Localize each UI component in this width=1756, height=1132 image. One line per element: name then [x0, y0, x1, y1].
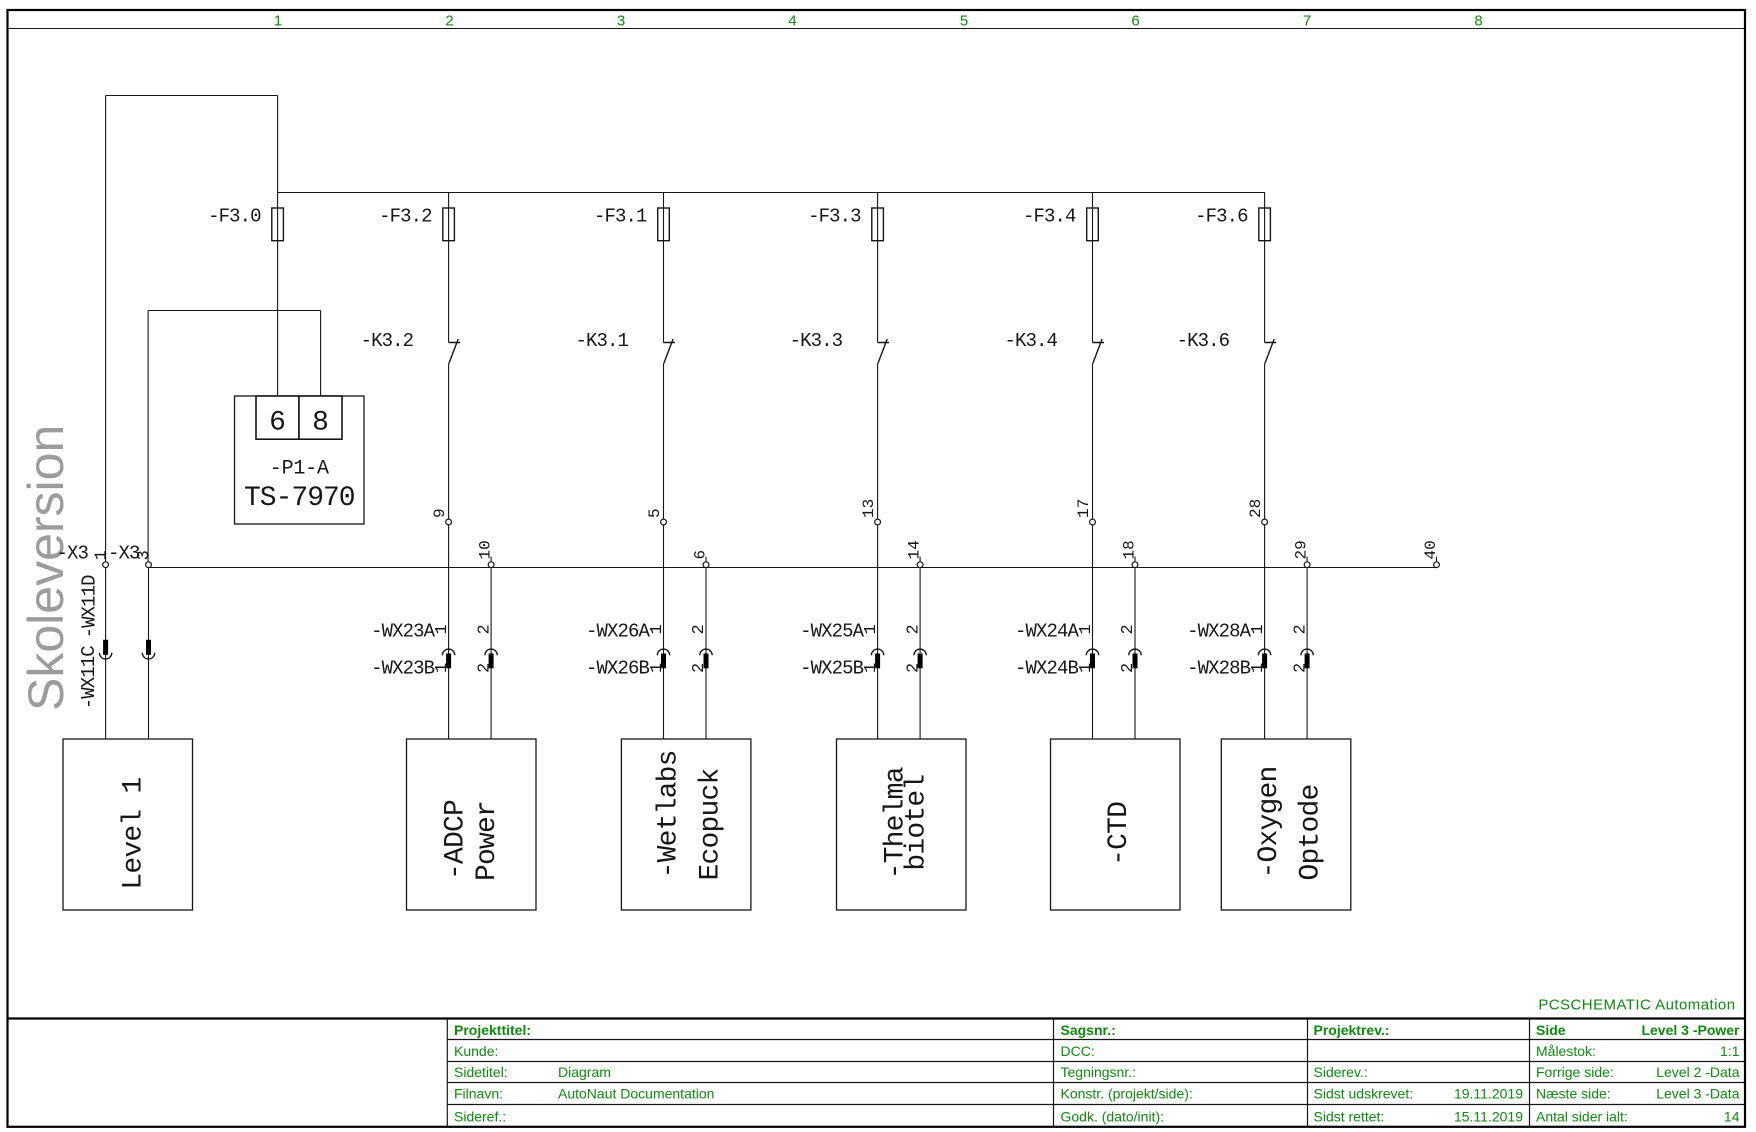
svg-text:Diagram: Diagram [558, 1064, 611, 1080]
svg-text:8: 8 [312, 408, 329, 439]
svg-text:-F3.1: -F3.1 [594, 206, 647, 228]
svg-text:9: 9 [431, 508, 449, 518]
svg-text:-WX28B: -WX28B [1187, 658, 1251, 680]
svg-text:-WX25A: -WX25A [800, 621, 865, 643]
svg-text:-WX28A: -WX28A [1187, 621, 1252, 643]
svg-text:Level 3 -Data: Level 3 -Data [1656, 1086, 1739, 1102]
svg-text:-WX26A: -WX26A [586, 621, 651, 643]
svg-text:14: 14 [1724, 1108, 1740, 1124]
svg-text:5: 5 [646, 508, 664, 518]
svg-text:-CTD: -CTD [1104, 802, 1135, 866]
svg-text:-WX23A: -WX23A [371, 621, 436, 643]
svg-text:TS-7970: TS-7970 [244, 483, 355, 514]
svg-text:6: 6 [1131, 13, 1139, 30]
svg-text:-K3.1: -K3.1 [575, 330, 628, 352]
svg-text:-WX11D: -WX11D [79, 575, 101, 639]
svg-text:-WX23B: -WX23B [371, 658, 435, 680]
svg-text:1: 1 [433, 663, 452, 673]
svg-text:-X3: -X3 [56, 543, 88, 565]
svg-text:1: 1 [862, 663, 881, 673]
svg-text:8: 8 [1474, 13, 1482, 30]
svg-text:Filnavn:: Filnavn: [454, 1086, 503, 1102]
svg-text:2: 2 [904, 624, 923, 634]
svg-text:1:1: 1:1 [1720, 1043, 1740, 1059]
svg-text:Side: Side [1536, 1022, 1566, 1038]
svg-text:2: 2 [1291, 663, 1310, 673]
svg-text:Skoleversion: Skoleversion [18, 425, 74, 711]
svg-text:Sagsnr.:: Sagsnr.: [1061, 1022, 1116, 1038]
svg-text:7: 7 [1303, 13, 1311, 30]
svg-text:Sidetitel:: Sidetitel: [454, 1064, 508, 1080]
svg-text:-WX24B: -WX24B [1015, 658, 1079, 680]
svg-text:Tegningsnr.:: Tegningsnr.: [1061, 1064, 1137, 1080]
svg-text:Power: Power [472, 801, 503, 881]
svg-text:-Oxygen: -Oxygen [1254, 766, 1285, 878]
svg-text:Konstr. (projekt/side):: Konstr. (projekt/side): [1061, 1086, 1193, 1102]
svg-text:6: 6 [692, 550, 710, 560]
svg-text:-ADCP: -ADCP [441, 800, 472, 880]
svg-text:10: 10 [477, 540, 495, 559]
svg-text:14: 14 [906, 540, 924, 559]
svg-text:-K3.6: -K3.6 [1177, 330, 1230, 352]
svg-text:-F3.4: -F3.4 [1023, 206, 1076, 228]
svg-text:Optode: Optode [1296, 784, 1327, 880]
svg-text:1: 1 [433, 624, 452, 634]
svg-text:2: 2 [1119, 624, 1138, 634]
svg-text:-P1-A: -P1-A [270, 458, 329, 481]
svg-text:-Wetlabs: -Wetlabs [654, 750, 685, 878]
svg-text:29: 29 [1293, 540, 1311, 559]
svg-text:2: 2 [690, 663, 709, 673]
svg-text:-K3.4: -K3.4 [1004, 330, 1057, 352]
svg-text:-F3.6: -F3.6 [1195, 206, 1248, 228]
svg-text:1: 1 [274, 13, 282, 30]
svg-text:biotel: biotel [902, 775, 933, 871]
svg-text:1: 1 [862, 624, 881, 634]
svg-text:-F3.3: -F3.3 [808, 206, 861, 228]
svg-text:1: 1 [1077, 624, 1096, 634]
svg-text:6: 6 [269, 408, 286, 439]
svg-text:3: 3 [617, 13, 625, 30]
svg-text:Antal sider ialt:: Antal sider ialt: [1536, 1108, 1628, 1124]
svg-text:2: 2 [445, 13, 453, 30]
svg-text:4: 4 [788, 13, 796, 30]
svg-text:-WX24A: -WX24A [1015, 621, 1080, 643]
svg-text:-X3: -X3 [108, 543, 140, 565]
svg-text:2: 2 [904, 663, 923, 673]
svg-text:1: 1 [1249, 663, 1268, 673]
svg-text:Projektrev.:: Projektrev.: [1314, 1022, 1390, 1038]
svg-text:-K3.2: -K3.2 [361, 330, 414, 352]
svg-text:28: 28 [1247, 499, 1265, 518]
svg-text:Level 2 -Data: Level 2 -Data [1656, 1064, 1739, 1080]
svg-text:1: 1 [1249, 624, 1268, 634]
svg-text:18: 18 [1121, 540, 1139, 559]
svg-text:Sideref.:: Sideref.: [454, 1108, 506, 1124]
svg-text:2: 2 [475, 663, 494, 673]
svg-text:-F3.0: -F3.0 [208, 206, 261, 228]
svg-text:AutoNaut Documentation: AutoNaut Documentation [558, 1086, 714, 1102]
svg-text:PCSCHEMATIC Automation: PCSCHEMATIC Automation [1538, 997, 1735, 1014]
svg-text:Næste side:: Næste side: [1536, 1086, 1611, 1102]
svg-text:1: 1 [1077, 663, 1096, 673]
svg-text:-WX11C: -WX11C [78, 646, 100, 710]
svg-text:1: 1 [648, 663, 667, 673]
svg-text:Level 3 -Power: Level 3 -Power [1641, 1022, 1740, 1038]
svg-text:Kunde:: Kunde: [454, 1043, 498, 1059]
svg-text:5: 5 [960, 13, 968, 30]
svg-text:15.11.2019: 15.11.2019 [1454, 1108, 1523, 1124]
svg-text:Level 1: Level 1 [119, 778, 150, 890]
svg-text:-F3.2: -F3.2 [379, 206, 432, 228]
svg-text:Sidst udskrevet:: Sidst udskrevet: [1314, 1086, 1414, 1102]
svg-text:2: 2 [475, 624, 494, 634]
svg-text:-K3.3: -K3.3 [790, 330, 843, 352]
svg-text:40: 40 [1422, 540, 1440, 559]
svg-text:2: 2 [690, 624, 709, 634]
svg-text:Projekttitel:: Projekttitel: [454, 1022, 531, 1038]
svg-text:DCC:: DCC: [1061, 1043, 1095, 1059]
svg-text:Sidst rettet:: Sidst rettet: [1314, 1108, 1385, 1124]
svg-text:1: 1 [648, 624, 667, 634]
svg-text:13: 13 [860, 499, 878, 518]
svg-text:-WX25B: -WX25B [800, 658, 864, 680]
svg-text:Målestok:: Målestok: [1536, 1043, 1596, 1059]
svg-text:19.11.2019: 19.11.2019 [1454, 1086, 1523, 1102]
svg-text:Siderev.:: Siderev.: [1314, 1064, 1368, 1080]
svg-text:Forrige side:: Forrige side: [1536, 1064, 1614, 1080]
svg-text:Ecopuck: Ecopuck [696, 768, 727, 880]
svg-text:2: 2 [1119, 663, 1138, 673]
svg-text:-WX26B: -WX26B [586, 658, 650, 680]
svg-text:Godk. (dato/init):: Godk. (dato/init): [1061, 1108, 1165, 1124]
svg-text:17: 17 [1075, 499, 1093, 518]
svg-text:2: 2 [1291, 624, 1310, 634]
